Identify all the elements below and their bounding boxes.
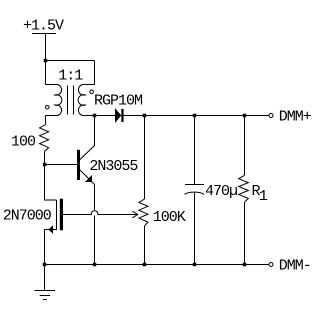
wire node B down to Q2 gate: [45, 164, 57, 200]
wire cap top from rail: [194, 116, 196, 185]
transistor Q1 collector line: [80, 116, 95, 161]
capacitor C1 bottom plate curved: [185, 192, 204, 194]
wire node B to Q1 base: [45, 164, 78, 166]
wire Q1 emitter down upper segment: [94, 185, 96, 210]
node A junction: [44, 59, 48, 63]
transformer T1 core left line: [67, 86, 69, 115]
transformer T1 core right line: [73, 86, 75, 115]
svg-text:100K: 100K: [153, 209, 186, 226]
transformer T1 primary phase dot: [46, 106, 50, 110]
wire resistor to node B: [44, 151, 46, 164]
node D junction pot top: [143, 114, 147, 118]
svg-text:1: 1: [259, 188, 268, 205]
svg-text:100: 100: [11, 134, 36, 151]
node B junction: [43, 163, 47, 167]
svg-text:DMM+: DMM+: [279, 109, 312, 126]
diode D1 cathode bar: [121, 109, 123, 122]
node E junction cap top: [193, 114, 197, 118]
wire diode cathode to DMM+ rail: [124, 115, 269, 117]
node F junction R1 top: [243, 114, 247, 118]
wire Q1 emitter down lower segment: [94, 216, 96, 265]
wire R1 top from rail: [244, 116, 246, 176]
potentiometer 100K zigzag: [139, 199, 148, 226]
mosfet Q2 channel bar: [60, 199, 63, 231]
svg-text:DMM-: DMM-: [279, 258, 311, 275]
wire Q2 source down to ground rail: [44, 230, 46, 265]
resistor R1 zigzag: [239, 175, 249, 202]
wire ground stub: [44, 265, 46, 291]
ground rail junction at pot bottom: [143, 263, 147, 267]
wire node C to diode anode: [95, 115, 116, 117]
wire Q2 drain to pot wiper with hop: [63, 211, 133, 215]
transistor Q1 2N3055 base bar: [77, 150, 80, 180]
transistor Q1 emitter arrow: [85, 175, 92, 182]
diode D1 RGP10M triangle: [115, 109, 121, 122]
resistor 100: [40, 125, 49, 152]
wire right branch down to secondary top: [94, 61, 96, 85]
ground rail junction at Q1 emitter: [93, 263, 97, 267]
wire primary bottom down: [45, 116, 47, 125]
terminal DMM- circle: [269, 263, 273, 267]
ground rail junction at R1 bottom: [243, 263, 247, 267]
transformer T1 primary winding: [46, 85, 62, 116]
ground symbol: [35, 291, 56, 300]
wire cap bottom to ground rail: [194, 192, 196, 265]
transistor Q1 emitter line: [80, 170, 95, 185]
ground rail junction at Q2 source: [43, 263, 47, 267]
wire node A down to primary top: [45, 61, 47, 85]
svg-text:2N3055: 2N3055: [89, 158, 138, 175]
wire pot top from rail: [144, 116, 146, 200]
svg-text:1:1: 1:1: [58, 68, 83, 85]
terminal DMM+ circle: [269, 114, 273, 118]
ground rail junction at cap bottom: [193, 263, 197, 267]
ground rail wire DMM-: [45, 264, 270, 266]
node C junction secondary to rail: [93, 114, 97, 118]
mosfet Q2 source line with arrow: [45, 229, 58, 231]
wire pot bottom to ground rail: [144, 226, 146, 265]
mosfet Q2 source arrow: [48, 225, 53, 234]
power rail bar: [32, 33, 56, 35]
wire supply to node A: [45, 34, 47, 61]
svg-text:470µ: 470µ: [205, 183, 237, 200]
svg-text:+1.5V: +1.5V: [23, 18, 64, 35]
capacitor C1 top plate: [185, 184, 204, 186]
pot wiper arrow: [133, 211, 138, 218]
wire R1 bottom to ground rail: [244, 202, 246, 264]
transformer T1 secondary winding: [78, 85, 94, 116]
svg-text:RGP10M: RGP10M: [94, 93, 143, 110]
wire node A to right branch top: [46, 60, 95, 62]
mosfet Q2 2N7000 gate line: [56, 200, 58, 230]
transformer T1 secondary phase dot: [90, 90, 94, 94]
svg-text:2N7000: 2N7000: [3, 208, 52, 225]
